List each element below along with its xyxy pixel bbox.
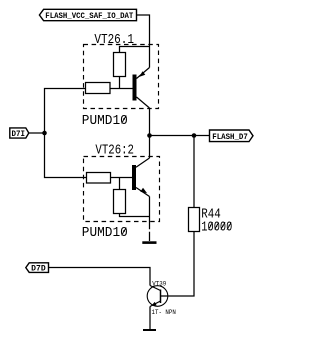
collector of VT26.2 — [136, 158, 150, 167]
svg-text:VT39: VT39 — [152, 280, 166, 287]
svg-text:FLASH_D7: FLASH_D7 — [212, 132, 248, 142]
svg-text:FLASH_VCC_SAF_IO_DAT: FLASH_VCC_SAF_IO_DAT — [45, 12, 133, 21]
junction dot R44 tap — [192, 133, 197, 138]
wire down to R44 — [193, 136, 195, 208]
resistor base-emitter of VT26.2 — [114, 190, 126, 214]
wire VT39 emitter to ground — [149, 307, 151, 330]
emitter arrow NPN VT39 — [151, 302, 156, 306]
transistor VT26.2 bar — [132, 165, 136, 190]
svg-text:VT26:2: VT26:2 — [95, 143, 134, 159]
svg-text:10000: 10000 — [201, 219, 232, 235]
wire left bus — [45, 89, 87, 178]
wire be-resistor to emitter rail — [120, 214, 150, 217]
wire base resistor to bar VT26.2 — [111, 177, 133, 179]
svg-text:PUMD10: PUMD10 — [82, 113, 128, 129]
resistor base-emitter of VT26.1 — [114, 53, 126, 77]
net flag FLASH_VCC_SAF_IO_DAT — [39, 9, 136, 20]
svg-text:VT26.1: VT26.1 — [94, 32, 134, 48]
dashed box VT26.1 — [84, 45, 159, 109]
wire resistor to base line — [119, 77, 121, 89]
emitter of VT26.2 — [136, 188, 150, 197]
svg-text:D7D: D7D — [31, 265, 46, 274]
dashed box VT26.2 — [84, 157, 160, 222]
wire top rail to base-emitter resistor — [120, 47, 150, 53]
wire collector bus VT26.1 to VT26.2 — [149, 108, 151, 158]
net flag D7I — [10, 128, 29, 139]
ground below VT26.2 — [142, 241, 156, 244]
junction dot D7I bus — [42, 131, 47, 136]
ground below VT39 — [143, 329, 156, 331]
resistor R44 — [189, 208, 200, 232]
emitter of VT26.1 — [137, 68, 150, 79]
wire base resistor to bar — [110, 88, 133, 90]
emitter arrow NPN VT26.2 — [140, 188, 147, 194]
wire D7I to bus — [29, 132, 45, 134]
wire flash_vcc flag to emitter of VT26.1 — [137, 15, 150, 68]
wire D7D to VT39 collector — [49, 268, 151, 286]
resistor base series of VT26.1 — [86, 83, 111, 94]
net flag D7D — [26, 263, 49, 274]
svg-text:D7I: D7I — [12, 130, 26, 139]
collector of VT26.1 — [137, 97, 150, 108]
junction dot output node — [147, 133, 152, 138]
wire R44 to VT39 base — [161, 232, 194, 297]
svg-text:1T- NPN: 1T- NPN — [152, 309, 176, 316]
resistor base series of VT26.2 — [87, 173, 111, 184]
emitter arrow PNP VT26.1 — [139, 71, 145, 77]
wire emitter VT26.2 to ground — [149, 197, 151, 242]
transistor VT26.1 bar — [133, 75, 137, 101]
net flag FLASH_D7 — [210, 130, 254, 142]
transistor VT39 — [147, 286, 168, 307]
wire output to FLASH_D7 — [150, 135, 210, 137]
wire stub to base-emitter resistor VT26.2 — [119, 178, 121, 190]
svg-text:PUMD10: PUMD10 — [82, 225, 128, 241]
